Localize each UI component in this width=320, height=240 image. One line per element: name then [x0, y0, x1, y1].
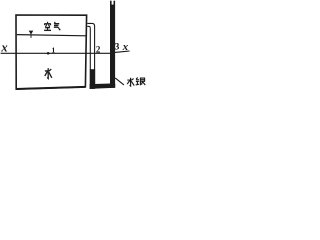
- free-surface symbol (inverted triangle): [29, 31, 34, 38]
- manometer tube inner wall: [87, 26, 90, 69]
- water surface line: [17, 35, 86, 36]
- svg-text:2: 2: [96, 44, 101, 54]
- label 空气 (air) : glyph 气: [54, 22, 60, 30]
- svg-text:x: x: [0, 40, 7, 54]
- manometer tube outer wall (from tank to U): [87, 23, 94, 84]
- tank: [16, 15, 87, 89]
- right limb tube walls above mercury: [110, 1, 115, 6]
- label 水银 (mercury) : glyph 水: [127, 78, 134, 86]
- label 水银 (mercury) : glyph 银: [136, 78, 146, 85]
- leader line to mercury label: [115, 78, 124, 85]
- mercury in U bottom: [90, 83, 116, 89]
- tank bottom (thicker): [16, 87, 85, 89]
- point 1 dot: [47, 52, 50, 55]
- datum line x-x (right segment): [115, 51, 130, 52]
- label 空气 (air) : glyph 空: [44, 22, 51, 31]
- label 水 (water): [45, 68, 52, 78]
- mercury column in left limb: [90, 69, 95, 89]
- svg-text:x: x: [122, 41, 129, 53]
- svg-text:1: 1: [52, 46, 56, 55]
- datum line x-x (left/main segment): [1, 52, 110, 54]
- mercury column in right limb: [110, 5, 115, 88]
- svg-text:3: 3: [115, 43, 120, 53]
